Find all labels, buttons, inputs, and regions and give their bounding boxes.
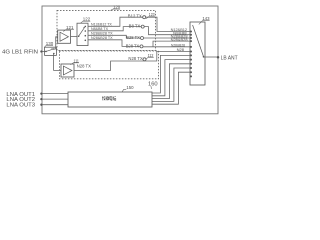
wire LNA OUT3 — [43, 104, 69, 106]
wire LNA OUT2 — [43, 98, 69, 100]
wire receiver output 5 to antenna switch — [152, 72, 190, 104]
dashed transmit module box 120 — [57, 10, 156, 50]
port LNA OUT2 — [6, 97, 42, 103]
svg-text:B28 TX: B28 TX — [126, 43, 140, 48]
wire N28&B28 TX branch b — [88, 40, 140, 47]
wire port B28 TX upper to antenna switch — [144, 37, 191, 39]
wire N8&B8 TX branch — [88, 27, 141, 31]
label 123 — [146, 12, 155, 18]
port B28 TX upper — [126, 35, 143, 40]
dashed bypass module box 110 — [60, 51, 159, 79]
svg-text:N28&B28: N28&B28 — [171, 38, 188, 42]
label 120 — [110, 5, 120, 11]
port LNA OUT3 — [6, 103, 42, 109]
label 111 — [71, 58, 80, 64]
svg-text:LB ANT: LB ANT — [221, 56, 238, 62]
wire branch B28 lower to switch row — [153, 41, 190, 47]
wire antenna switch to LB ANT port — [204, 56, 217, 58]
port B28 TX lower — [126, 43, 143, 48]
wire N28&B28 TX branch a — [88, 35, 140, 38]
svg-text:N28&B28: N28&B28 — [171, 44, 185, 48]
label 160 — [148, 81, 158, 89]
svg-text:150: 150 — [126, 85, 134, 90]
label 130 — [44, 41, 53, 47]
switch 130 — [45, 47, 57, 55]
svg-text:LNA OUT3: LNA OUT3 — [6, 103, 35, 109]
svg-text:N28&B28 TX: N28&B28 TX — [91, 35, 113, 40]
label 150 — [122, 85, 134, 92]
amplifier 111 — [61, 64, 74, 77]
wire switch130 to amplifier 111 — [54, 54, 62, 71]
label 122 — [80, 17, 90, 24]
port 4G LB1 RFIN — [2, 49, 43, 55]
outer system enclosure box — [42, 6, 218, 114]
switch 122 — [77, 23, 88, 45]
wire amplifier 121 to switch 122 — [71, 36, 78, 38]
wire LNA OUT1 — [43, 93, 69, 95]
port B12 TX — [128, 14, 146, 19]
wire port B28 TX lower to antenna switch — [143, 46, 190, 48]
receiving circuit text jie-shou-dian-lu — [102, 96, 116, 100]
svg-text:B28 TX: B28 TX — [126, 35, 140, 40]
label 112 — [146, 53, 154, 60]
receiving circuit box 150 — [68, 92, 152, 107]
port LNA OUT1 — [6, 92, 42, 98]
svg-text:B12 TX: B12 TX — [128, 14, 142, 19]
svg-text:N28 TX: N28 TX — [128, 56, 142, 61]
label 121 — [63, 25, 74, 31]
wire port B8 TX to antenna switch — [144, 27, 190, 35]
svg-text:B8 TX: B8 TX — [129, 23, 141, 28]
antenna switch 143 — [190, 22, 205, 85]
wire amplifier 111 output to antenna switch — [74, 52, 190, 71]
svg-text:160: 160 — [148, 81, 158, 87]
label 143 — [199, 16, 210, 24]
wire switch130 to amplifier 121 — [54, 37, 58, 49]
wire port B12 TX to antenna switch — [146, 17, 191, 31]
wire receiver output 2 to antenna switch — [152, 60, 190, 96]
svg-text:4G LB1 RFIN: 4G LB1 RFIN — [2, 49, 38, 55]
svg-text:N28: N28 — [177, 48, 185, 52]
wire RFIN to switch 130 — [43, 51, 47, 53]
wire receiver output 3 to antenna switch — [152, 64, 190, 99]
svg-text:N28 TX: N28 TX — [77, 64, 91, 69]
wire N12&B12 TX branch — [88, 17, 143, 26]
port N28 TX — [128, 56, 146, 61]
wire receiver output 1 to antenna switch — [152, 55, 190, 93]
port B8 TX — [129, 23, 145, 28]
amplifier 121 — [58, 30, 71, 43]
wire receiver output 4 to antenna switch — [152, 68, 190, 101]
port LB ANT — [217, 56, 238, 62]
